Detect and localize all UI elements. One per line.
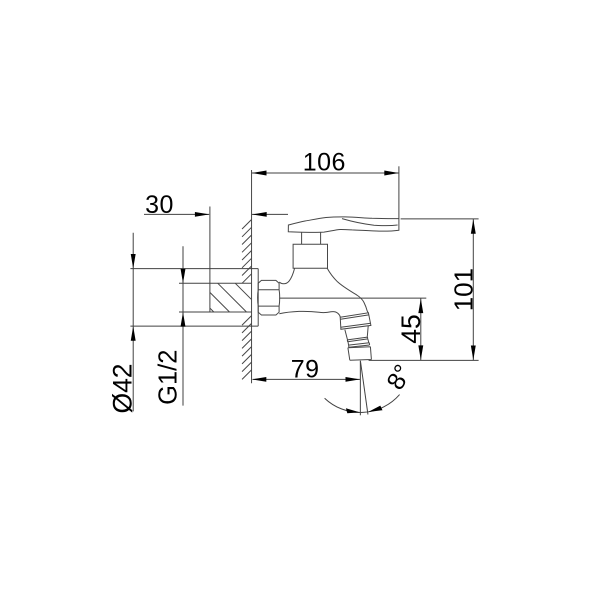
- threaded shank in wall (section box): [210, 283, 251, 312]
- dim 30 line right piece: [252, 213, 288, 215]
- flange top edge + extension to d42 line: [130, 268, 258, 270]
- body right flare / spout outer curve: [327, 268, 368, 313]
- dim 30 extension line: [209, 207, 211, 313]
- barb neck: [348, 339, 369, 345]
- dim G1/2 line: [182, 246, 184, 405]
- dim 106 line: [252, 172, 399, 174]
- outlet collar band: [340, 313, 371, 330]
- dim 30 line left piece: [144, 213, 209, 215]
- handle lever outline: [288, 217, 399, 232]
- wire wall face line: [251, 170, 253, 383]
- handle inner top edge: [342, 219, 398, 226]
- dim 30 arrows: [195, 212, 210, 217]
- hex nut: [258, 280, 280, 315]
- barb ridge 2: [349, 343, 370, 348]
- angle 8 arc arrows: [346, 408, 360, 413]
- wall hatch lower ticks: [242, 316, 252, 380]
- shank G1/2 extension lines: [179, 283, 210, 312]
- nut face lines: [258, 290, 279, 306]
- handle stem: [302, 232, 321, 244]
- dim 79 arrows: [252, 377, 266, 382]
- dim G1/2 arrows: [181, 269, 186, 284]
- dim 45 line: [420, 298, 422, 360]
- outlet tip cylinder: [348, 347, 372, 361]
- centerline extension for 45: [279, 297, 426, 299]
- spout bottom curve: [279, 311, 340, 317]
- top extension line for 101: [401, 218, 479, 220]
- bonnet: [293, 244, 327, 268]
- dim d42 arrows: [131, 254, 136, 269]
- shank hatch: [210, 283, 251, 312]
- dim 106 arrows: [252, 171, 267, 176]
- angle 8 vertical reference line: [359, 361, 361, 416]
- flange bottom edge + extension to d42 line: [130, 325, 258, 327]
- svg-text:Ø42: Ø42: [108, 363, 138, 413]
- svg-text:G1/2: G1/2: [155, 350, 183, 405]
- bottom extension line for 101/45: [369, 359, 479, 361]
- collar inner rim lines: [341, 315, 371, 327]
- svg-text:45: 45: [396, 314, 426, 343]
- wall hatch upper ticks: [242, 220, 252, 284]
- escutcheon flange (d42) right edge: [257, 269, 259, 327]
- dim d42 line: [132, 233, 134, 412]
- barb ridge 1: [347, 337, 367, 342]
- svg-text:79: 79: [291, 356, 320, 384]
- body left flare curve to nut: [279, 268, 294, 284]
- angle 8 arc: [325, 395, 400, 413]
- dim 101 line: [472, 219, 474, 360]
- outlet taper: [345, 326, 368, 341]
- svg-text:30: 30: [145, 191, 174, 219]
- dim 106 right extension line: [398, 166, 400, 218]
- svg-text:101: 101: [448, 268, 478, 311]
- dim 79 line: [253, 378, 360, 380]
- dim 45 arrows: [418, 299, 423, 314]
- svg-text:106: 106: [303, 149, 346, 177]
- dim 101 arrows: [471, 219, 476, 234]
- angle 8 tilted axis line: [360, 361, 368, 415]
